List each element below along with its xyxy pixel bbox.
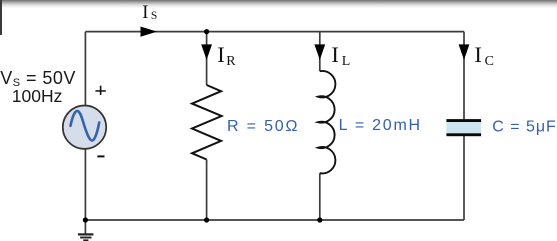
svg-text:I: I (142, 3, 148, 23)
svg-text:C: C (485, 54, 494, 69)
svg-text:L = 20mH: L = 20mH (339, 117, 421, 134)
svg-text:I: I (331, 42, 339, 67)
svg-text:100Hz: 100Hz (12, 86, 63, 106)
svg-text:C = 5μF: C = 5μF (492, 118, 556, 135)
svg-text:S: S (151, 10, 157, 22)
svg-text:L: L (342, 54, 351, 69)
svg-text:R = 50Ω: R = 50Ω (227, 118, 298, 135)
svg-text:I: I (217, 42, 225, 67)
svg-text:I: I (474, 42, 482, 67)
svg-text:R: R (226, 54, 236, 69)
